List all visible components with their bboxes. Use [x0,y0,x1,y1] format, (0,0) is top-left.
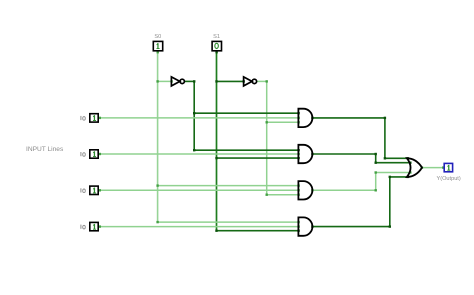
wire S1 vertical [216,51,218,231]
wire gate4 input3 from S1 corner [217,230,299,232]
wire gate3 input1 from S0 [158,185,299,187]
node dots [99,51,445,232]
wire I0 line [99,117,298,119]
wire inverter B output to corner [256,80,266,82]
input box I3 [81,222,98,230]
wire inverter A output to corner [184,80,194,82]
op: inverter U2 (NOT S1) [244,77,257,86]
wire OR output to Y [422,167,444,169]
svg-text:S1: S1 [213,34,220,40]
wire gate2 output [312,154,410,163]
output box Y [436,163,460,181]
wire I3 line [99,226,298,228]
and gate U6 [298,217,312,235]
wire gate3 output [312,173,410,191]
wire S0 vertical [157,51,159,222]
and gate U3 [298,109,312,127]
svg-text:Y(Output): Y(Output) [436,176,460,182]
and gate U4 [298,145,312,163]
or gate U7 [407,158,422,177]
input box S0 [153,34,162,51]
op: inverter U1 (NOT S0) [171,77,184,86]
wire gate3 input3 from NOT-S1 corner [267,194,299,196]
wire gate1 input3 from NOT-S1 [267,121,299,123]
wire NOT-S1 vertical [266,81,268,195]
input box S1 [212,34,221,51]
svg-text:INPUT Lines: INPUT Lines [26,146,64,153]
wire inverter B input [216,80,244,82]
input box I0 [81,114,98,122]
svg-text:S0: S0 [154,34,161,40]
wire gate2 input1 from NOT-S0 corner [194,149,298,151]
wire inverter A input [157,80,172,82]
wire NOT-S0 vertical [193,81,195,151]
wire I1 line [99,153,298,155]
input box I1 [81,150,98,158]
wire gate4 output [312,177,407,227]
wire I2 line [99,189,298,191]
wire gate4 input1 from S0 corner [158,221,299,223]
and gate U5 [298,181,312,199]
input box I2 [81,186,98,194]
wire gate2 input3 from S1 [217,157,299,159]
wire gate1 output [312,118,407,158]
wire gate1 input1 from NOT-S0 [194,112,298,114]
